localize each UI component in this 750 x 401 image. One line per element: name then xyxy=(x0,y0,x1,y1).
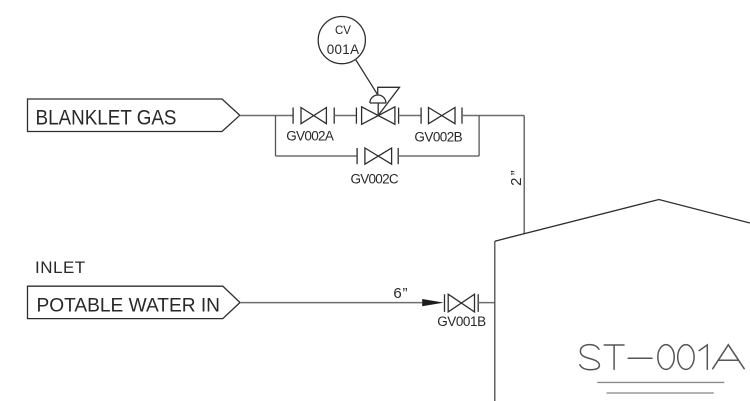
svg-text:BLANKLET GAS: BLANKLET GAS xyxy=(36,106,177,129)
wire gas line flag tip to GV002A xyxy=(240,115,293,117)
instrument bubble CV001A xyxy=(318,16,365,63)
svg-text:GV002C: GV002C xyxy=(351,171,399,186)
glyph A xyxy=(713,345,745,369)
glyph dash xyxy=(628,357,652,359)
valve GV001B xyxy=(445,294,479,312)
wire water line xyxy=(240,302,422,304)
valve GV002A xyxy=(293,108,334,124)
glyph S xyxy=(580,345,600,370)
glyph 0 xyxy=(678,345,694,370)
flow arrow xyxy=(422,299,444,306)
wire GV001B to tank xyxy=(478,302,495,304)
svg-text:CV: CV xyxy=(335,25,351,37)
wire bypass right riser xyxy=(478,116,480,157)
svg-text:GV002A: GV002A xyxy=(286,129,334,144)
svg-text:POTABLE WATER IN: POTABLE WATER IN xyxy=(37,295,221,317)
wire GV002B to corner xyxy=(462,115,524,117)
svg-text:GV002B: GV002B xyxy=(414,129,462,144)
tank ST-001A roof xyxy=(495,200,750,242)
svg-text:6”: 6” xyxy=(393,285,408,302)
glyph T xyxy=(604,345,624,369)
flag BLANKLET GAS xyxy=(28,99,240,132)
control valve flag triangle xyxy=(378,87,400,115)
wire bypass right horizontal xyxy=(398,155,479,157)
wire bypass left drop xyxy=(275,116,277,157)
wire control valve to GV002B xyxy=(399,115,422,117)
glyph 1 xyxy=(699,345,707,369)
flag POTABLE WATER IN xyxy=(28,286,241,318)
svg-text:001A: 001A xyxy=(327,42,359,57)
tank tag underline 1 xyxy=(597,381,724,383)
control valve actuator stem xyxy=(377,103,379,116)
tank ST-001A left wall xyxy=(494,241,496,401)
leader line from bubble to control valve xyxy=(356,60,378,95)
valve GV002B xyxy=(421,108,462,124)
wire bypass left horizontal xyxy=(276,155,358,157)
wire GV002A to control valve xyxy=(334,115,356,117)
glyph 0 xyxy=(658,345,674,370)
control valve diaphragm actuator dome xyxy=(370,95,386,103)
svg-text:INLET: INLET xyxy=(35,258,85,277)
svg-text:2”: 2” xyxy=(508,168,525,186)
tank tag underline 2 xyxy=(607,392,714,394)
wire 2-inch drop to tank roof xyxy=(523,116,525,234)
control valve CV001A body xyxy=(356,107,398,125)
label ST-001A (tank tag) xyxy=(580,345,744,370)
valve GV002C xyxy=(357,148,398,164)
svg-text:GV001B: GV001B xyxy=(437,314,486,329)
